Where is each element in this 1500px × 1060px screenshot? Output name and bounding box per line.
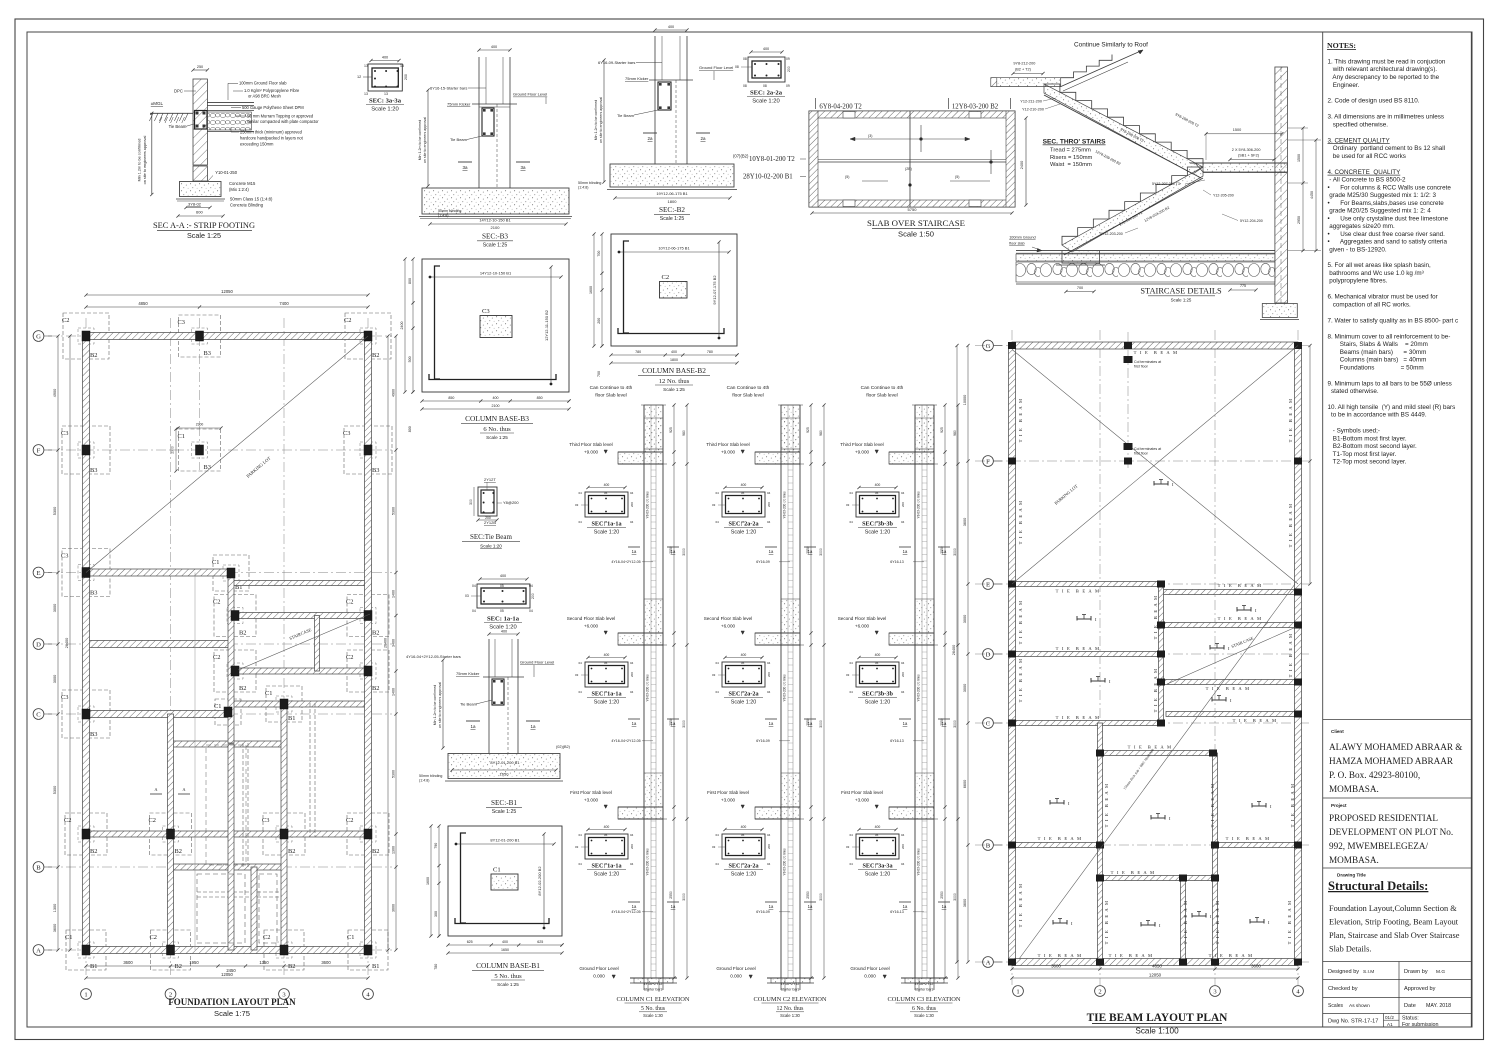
svg-text:T I E B E A M: T I E B E A M xyxy=(1056,646,1101,651)
svg-text:B2: B2 xyxy=(372,352,379,359)
svg-text:B2: B2 xyxy=(239,630,246,637)
svg-text:Plan, Staircase and Slab Over: Plan, Staircase and Slab Over Staircase xyxy=(1329,931,1460,940)
svg-text:C2: C2 xyxy=(346,817,353,824)
svg-text:03: 03 xyxy=(575,845,579,849)
svg-text:Col terminates at: Col terminates at xyxy=(1134,360,1161,364)
svg-text:2300: 2300 xyxy=(196,423,204,427)
svg-text:100mm Ground Floor slab: 100mm Ground Floor slab xyxy=(239,81,287,86)
svg-text:400: 400 xyxy=(671,350,677,354)
svg-text:3000: 3000 xyxy=(819,548,823,556)
svg-text:T I E B E A M: T I E B E A M xyxy=(1233,718,1278,723)
svg-text:Ground Floor Level: Ground Floor Level xyxy=(513,92,547,97)
svg-text:Y8@200: Y8@200 xyxy=(503,500,519,505)
svg-text:5Y12-207-200 T3: 5Y12-207-200 T3 xyxy=(1152,182,1180,186)
tie beam plan grid bubbles xyxy=(983,340,994,351)
svg-text:04: 04 xyxy=(630,833,634,837)
svg-text:(5): (5) xyxy=(955,175,959,179)
svg-text:04: 04 xyxy=(767,661,771,665)
svg-text:Scale 1:20: Scale 1:20 xyxy=(865,700,890,706)
svg-text:04: 04 xyxy=(630,690,634,694)
svg-text:Can Continue to 4th: Can Continue to 4th xyxy=(590,385,633,391)
svg-text:Scale 1:20: Scale 1:20 xyxy=(865,872,890,878)
svg-text:B2: B2 xyxy=(175,963,182,970)
svg-text:Y8-03-200 c/c links: Y8-03-200 c/c links xyxy=(917,848,921,876)
svg-text:Tread = 275mm: Tread = 275mm xyxy=(1050,148,1091,154)
svg-text:SEC: 3b-3b: SEC: 3b-3b xyxy=(862,691,893,698)
svg-text:Ground Floor Level: Ground Floor Level xyxy=(520,660,554,665)
svg-text:C2: C2 xyxy=(150,934,157,941)
svg-text:0.000: 0.000 xyxy=(864,974,876,979)
svg-text:03: 03 xyxy=(575,503,579,507)
svg-text:3000: 3000 xyxy=(53,675,57,683)
svg-text:polypropylene fibres.: polypropylene fibres. xyxy=(1328,278,1388,285)
svg-text:05: 05 xyxy=(604,491,608,495)
svg-text:400: 400 xyxy=(493,396,499,400)
svg-text:(1:4:8): (1:4:8) xyxy=(438,214,448,218)
lower stair flight xyxy=(1062,167,1203,245)
svg-text:Min 1.2m to be confirmed: Min 1.2m to be confirmed xyxy=(433,685,437,726)
svg-text:04: 04 xyxy=(901,520,905,524)
SEC Tie Beam section xyxy=(462,477,520,549)
svg-text:04: 04 xyxy=(579,661,583,665)
svg-text:exceeding 150mm: exceeding 150mm xyxy=(240,142,274,147)
svg-text:08: 08 xyxy=(743,84,747,88)
svg-text:Y12-211-200: Y12-211-200 xyxy=(1020,100,1042,104)
svg-text:P. O. Box. 42923-80100,: P. O. Box. 42923-80100, xyxy=(1329,770,1420,780)
svg-text:200: 200 xyxy=(767,844,771,849)
svg-text:10Y8-01-200 T2: 10Y8-01-200 T2 xyxy=(749,156,795,163)
svg-text:T I E B E A M: T I E B E A M xyxy=(1038,953,1083,958)
svg-text:4Y16+2Y12: 4Y16+2Y12 xyxy=(915,982,934,986)
svg-text:03: 03 xyxy=(846,503,850,507)
svg-text:Structural Details:: Structural Details: xyxy=(1328,879,1428,893)
svg-text:Scale 1:20: Scale 1:20 xyxy=(371,107,398,113)
svg-text:compaction of all RC works.: compaction of all RC works. xyxy=(1328,301,1412,308)
svg-text:Scale 1:25: Scale 1:25 xyxy=(187,231,221,240)
svg-text:250mm thick (minimum) approved: 250mm thick (minimum) approved xyxy=(240,130,303,135)
svg-text:Scale 1:100: Scale 1:100 xyxy=(1135,1027,1179,1036)
svg-text:04: 04 xyxy=(850,833,854,837)
svg-text:400: 400 xyxy=(668,25,674,29)
svg-text:925: 925 xyxy=(669,427,673,433)
svg-text:Scale 1:25: Scale 1:25 xyxy=(1171,298,1192,303)
svg-text:Second Floor Slab level: Second Floor Slab level xyxy=(704,616,753,621)
svg-text:4Y16+2Y12: 4Y16+2Y12 xyxy=(644,982,663,986)
svg-text:05: 05 xyxy=(741,661,745,665)
svg-text:4Y16-04+2Y12-05-Starter bars: 4Y16-04+2Y12-05-Starter bars xyxy=(406,654,461,659)
SEC-B2 footing section xyxy=(578,25,737,222)
tie beam plan perimeter walls xyxy=(1009,342,1302,966)
svg-text:3000: 3000 xyxy=(682,720,686,728)
svg-text:As shown: As shown xyxy=(1349,1003,1370,1009)
svg-text:26400: 26400 xyxy=(384,638,388,648)
svg-text:stated otherwise.: stated otherwise. xyxy=(1328,388,1379,395)
svg-text:Scale 1:25: Scale 1:25 xyxy=(660,216,685,222)
svg-text:7400: 7400 xyxy=(279,301,289,306)
svg-text:T I E B E A M: T I E B E A M xyxy=(1287,900,1292,945)
svg-text:780: 780 xyxy=(434,964,438,970)
section box SEC: 3b-3b xyxy=(846,483,905,536)
svg-text:(1:4:8): (1:4:8) xyxy=(578,186,588,190)
svg-text:E: E xyxy=(36,570,40,577)
svg-text:1300: 1300 xyxy=(392,846,396,854)
SEC-B3 footing section xyxy=(418,45,572,249)
svg-text:10Y12-06-175 B1: 10Y12-06-175 B1 xyxy=(658,246,690,251)
svg-text:Min 1.2m to be confirmed: Min 1.2m to be confirmed xyxy=(138,139,142,182)
svg-text:STAIRCASE DETAILS: STAIRCASE DETAILS xyxy=(1140,287,1222,296)
svg-text:COLUMN C2 ELEVATION: COLUMN C2 ELEVATION xyxy=(753,996,826,1003)
svg-text:200: 200 xyxy=(901,502,905,507)
svg-text:300: 300 xyxy=(469,499,473,505)
svg-text:3600: 3600 xyxy=(963,518,967,526)
svg-text:A: A xyxy=(36,947,41,954)
svg-text:B1: B1 xyxy=(288,715,295,722)
svg-text:2. Code of design used BS 8110: 2. Code of design used BS 8110. xyxy=(1328,98,1420,105)
svg-text:10000: 10000 xyxy=(963,395,967,406)
svg-text:Dwg No. STR-17-17: Dwg No. STR-17-17 xyxy=(1328,1019,1378,1025)
svg-text:Date: Date xyxy=(1404,1003,1416,1009)
svg-text:B2: B2 xyxy=(288,848,295,855)
svg-text:Y10-01-250: Y10-01-250 xyxy=(215,170,238,175)
svg-text:SEC. THRO' STAIRS: SEC. THRO' STAIRS xyxy=(1043,139,1107,146)
svg-text:1300: 1300 xyxy=(53,904,57,912)
svg-text:4. CONCRETE QUALITY: 4. CONCRETE QUALITY xyxy=(1328,169,1402,176)
svg-text:Columns (main bars) = 40mm: Columns (main bars) = 40mm xyxy=(1328,357,1427,364)
svg-text:C2: C2 xyxy=(346,654,353,661)
svg-text:on site to engineers approval: on site to engineers approval xyxy=(599,97,603,143)
upper stair flight xyxy=(1044,84,1203,167)
svg-text:COLUMN C1 ELEVATION: COLUMN C1 ELEVATION xyxy=(616,996,689,1003)
svg-text:3000: 3000 xyxy=(682,893,686,901)
svg-text:04: 04 xyxy=(579,491,583,495)
svg-text:Scale 1:25: Scale 1:25 xyxy=(497,982,519,987)
svg-text:SEC: 1a-1a: SEC: 1a-1a xyxy=(591,863,621,870)
svg-text:04: 04 xyxy=(767,833,771,837)
svg-text:Scale 1:30: Scale 1:30 xyxy=(914,1013,934,1018)
svg-text:TIE BEAM LAYOUT PLAN: TIE BEAM LAYOUT PLAN xyxy=(1087,1012,1229,1024)
svg-text:1a: 1a xyxy=(942,721,947,726)
svg-text:B3: B3 xyxy=(204,464,211,471)
svg-text:Concrete Blinding: Concrete Blinding xyxy=(230,203,264,208)
svg-text:SEC: 1a-1a: SEC: 1a-1a xyxy=(591,691,621,698)
svg-text:3600: 3600 xyxy=(53,924,57,932)
svg-text:3a: 3a xyxy=(520,165,526,170)
svg-text:04: 04 xyxy=(529,584,533,588)
stair room dashed outlines xyxy=(197,874,245,943)
svg-text:850: 850 xyxy=(537,396,543,400)
svg-text:1a: 1a xyxy=(470,724,476,729)
svg-text:Third Floor Slab level: Third Floor Slab level xyxy=(840,442,883,447)
svg-text:Y8-03-200 c/c links: Y8-03-200 c/c links xyxy=(646,674,650,702)
svg-text:400: 400 xyxy=(501,630,507,634)
svg-text:13: 13 xyxy=(384,92,388,96)
svg-text:300: 300 xyxy=(434,911,438,917)
svg-text:T I E B E A M: T I E B E A M xyxy=(1153,668,1158,713)
svg-text:50 mm Murram Topping or approv: 50 mm Murram Topping or approved xyxy=(247,113,314,118)
notes panel xyxy=(1323,32,1472,1027)
svg-text:Y12-210-200: Y12-210-200 xyxy=(1022,108,1044,112)
svg-text:T I E B E A M: T I E B E A M xyxy=(1104,900,1109,945)
svg-text:MOMBASA.: MOMBASA. xyxy=(1329,784,1379,794)
SEC-B1 footing section xyxy=(406,630,571,816)
svg-text:Elevation, Strip Footing, Beam: Elevation, Strip Footing, Beam Layout xyxy=(1329,918,1459,927)
svg-text:09: 09 xyxy=(786,57,790,61)
svg-text:2a: 2a xyxy=(647,136,653,141)
svg-text:04: 04 xyxy=(716,833,720,837)
svg-text:B2: B2 xyxy=(90,352,97,359)
svg-text:Tie Beam: Tie Beam xyxy=(460,702,478,707)
svg-text:04: 04 xyxy=(767,690,771,694)
foundation plan dimensions xyxy=(53,289,398,980)
svg-text:200: 200 xyxy=(630,844,634,849)
svg-text:10. All high tensile (Y) and: 10. All high tensile (Y) and mild steel … xyxy=(1328,404,1456,411)
svg-text:S.I.M: S.I.M xyxy=(1363,969,1374,975)
svg-text:with relevant architectural dr: with relevant architectural drawing(s). xyxy=(1328,66,1438,73)
svg-text:19Y12-06-175 B1: 19Y12-06-175 B1 xyxy=(656,191,688,196)
staircase diagonal xyxy=(238,614,370,670)
svg-text:26400: 26400 xyxy=(952,645,956,656)
svg-text:C1: C1 xyxy=(347,934,354,941)
svg-text:on site to engineers approval: on site to engineers approval xyxy=(438,682,442,728)
svg-text:MOMBASA.: MOMBASA. xyxy=(1329,855,1379,865)
svg-text:Beams (main bars) = 30mm: Beams (main bars) = 30mm xyxy=(1328,349,1427,356)
svg-text:1a: 1a xyxy=(942,549,947,554)
svg-text:1600: 1600 xyxy=(589,286,593,294)
svg-text:04: 04 xyxy=(767,491,771,495)
svg-text:200: 200 xyxy=(767,502,771,507)
svg-text:6Y16-09: 6Y16-09 xyxy=(756,560,770,564)
svg-text:6Y16-09: 6Y16-09 xyxy=(756,910,770,914)
svg-text:Starter bars: Starter bars xyxy=(915,988,934,992)
svg-text:1: 1 xyxy=(84,991,87,998)
svg-text:+6.000: +6.000 xyxy=(855,624,870,629)
svg-text:04: 04 xyxy=(716,520,720,524)
svg-text:200: 200 xyxy=(787,66,791,72)
section box SEC: 1a-1a xyxy=(575,653,634,706)
svg-text:C1: C1 xyxy=(265,690,272,697)
svg-text:1a: 1a xyxy=(769,904,774,909)
svg-text:04: 04 xyxy=(716,661,720,665)
svg-text:C3: C3 xyxy=(61,553,68,560)
svg-text:04: 04 xyxy=(579,862,583,866)
svg-text:B1: B1 xyxy=(372,963,379,970)
svg-text:400: 400 xyxy=(604,483,610,487)
svg-text:floor Slab level: floor Slab level xyxy=(866,393,897,399)
svg-text:T I E B E A M: T I E B E A M xyxy=(1018,500,1023,545)
svg-text:MAY. 2018: MAY. 2018 xyxy=(1426,1003,1451,1009)
svg-text:03: 03 xyxy=(712,503,716,507)
svg-text:T I E B E A M: T I E B E A M xyxy=(1134,350,1179,355)
svg-text:C1: C1 xyxy=(65,934,72,941)
svg-text:6Y16-13: 6Y16-13 xyxy=(890,560,904,564)
svg-text:T I E B E A M: T I E B E A M xyxy=(1153,595,1158,640)
svg-text:7. Water to satisfy quality as: 7. Water to satisfy quality as in BS 850… xyxy=(1328,317,1459,324)
svg-text:C: C xyxy=(36,711,41,718)
svg-text:9Y12-07-175 B2: 9Y12-07-175 B2 xyxy=(712,275,717,305)
svg-text:04: 04 xyxy=(716,491,720,495)
svg-text:SLAB OVER STAIRCASE: SLAB OVER STAIRCASE xyxy=(867,218,965,228)
svg-text:T I E B E A M: T I E B E A M xyxy=(1056,589,1101,594)
svg-text:similar compacted with plate c: similar compacted with plate compactor xyxy=(247,119,319,124)
svg-text:T I E B E A M: T I E B E A M xyxy=(1209,953,1254,958)
svg-text:C2: C2 xyxy=(263,934,270,941)
svg-text:5300: 5300 xyxy=(392,770,396,778)
svg-text:A1: A1 xyxy=(1387,1022,1393,1027)
svg-text:625: 625 xyxy=(467,940,473,944)
svg-text:(B2 + T2): (B2 + T2) xyxy=(1015,68,1032,72)
svg-text:200: 200 xyxy=(901,672,905,677)
svg-text:13: 13 xyxy=(400,64,404,68)
svg-text:04: 04 xyxy=(472,584,476,588)
svg-text:Ground Floor Level: Ground Floor Level xyxy=(850,966,889,971)
svg-text:First Floor Slab level: First Floor Slab level xyxy=(841,790,883,795)
svg-text:980: 980 xyxy=(819,430,823,436)
svg-text:12050: 12050 xyxy=(1149,973,1162,978)
svg-text:• For columns & RCC Walls: • For columns & RCC Walls use concrete xyxy=(1328,184,1452,191)
svg-text:50mm Class 15 (1:4:8): 50mm Class 15 (1:4:8) xyxy=(230,197,273,202)
svg-text:5300: 5300 xyxy=(53,507,57,515)
svg-text:SEC:-B3: SEC:-B3 xyxy=(482,233,508,241)
svg-text:3600: 3600 xyxy=(1251,964,1261,969)
title block xyxy=(1323,719,1472,1028)
svg-text:850: 850 xyxy=(448,396,454,400)
svg-text:SEC: 1a-1a: SEC: 1a-1a xyxy=(591,521,621,528)
svg-text:775: 775 xyxy=(1240,284,1246,288)
svg-text:+6.000: +6.000 xyxy=(584,624,599,629)
svg-text:SEC:-B1: SEC:-B1 xyxy=(491,799,517,807)
svg-text:03: 03 xyxy=(712,673,716,677)
svg-text:- Symbols used;-: - Symbols used;- xyxy=(1328,428,1381,435)
svg-text:C3: C3 xyxy=(178,319,185,326)
svg-text:2100: 2100 xyxy=(491,225,501,230)
svg-text:Scale 1:75: Scale 1:75 xyxy=(214,1009,250,1018)
svg-text:T I E B E A M: T I E B E A M xyxy=(1218,616,1263,621)
svg-text:1500: 1500 xyxy=(1233,128,1241,132)
svg-text:8. Minimum cover to all reinfo: 8. Minimum cover to all reinforcement to… xyxy=(1328,333,1451,340)
svg-text:03: 03 xyxy=(465,594,469,598)
svg-text:05: 05 xyxy=(875,491,879,495)
svg-text:grade M20/25 Suggested mix 1:: grade M20/25 Suggested mix 1: 2: 4 xyxy=(1328,208,1432,215)
svg-text:(1:4:8): (1:4:8) xyxy=(419,779,429,783)
svg-text:2550: 2550 xyxy=(669,891,673,899)
svg-text:Scale 1:20: Scale 1:20 xyxy=(594,530,619,536)
svg-text:to be in accordance with BS 44: to be in accordance with BS 4449. xyxy=(1328,412,1427,419)
svg-text:First Floor Slab level: First Floor Slab level xyxy=(570,790,612,795)
svg-text:1500: 1500 xyxy=(1297,154,1301,162)
svg-text:2 X 5Y8-306-200: 2 X 5Y8-306-200 xyxy=(1232,148,1261,152)
svg-text:D: D xyxy=(986,651,991,658)
svg-text:04: 04 xyxy=(579,690,583,694)
svg-text:9. Minimum laps to all bars to: 9. Minimum laps to all bars to be 55Ø un… xyxy=(1328,380,1452,387)
svg-text:First Floor Slab level: First Floor Slab level xyxy=(707,790,749,795)
svg-text:1400: 1400 xyxy=(392,590,396,598)
section A-A cut tags xyxy=(150,793,162,795)
svg-text:Any descrepancy to be reported: Any descrepancy to be reported to the xyxy=(1328,74,1440,81)
svg-text:• Aggregates and sand to: • Aggregates and sand to satisfy criteri… xyxy=(1328,239,1448,246)
slab over staircase plan xyxy=(809,98,1028,239)
svg-text:T2-Top most second layer.: T2-Top most second layer. xyxy=(1328,459,1407,466)
svg-text:04: 04 xyxy=(716,862,720,866)
svg-text:400: 400 xyxy=(502,940,508,944)
svg-text:2Y12B: 2Y12B xyxy=(484,520,496,525)
svg-text:200: 200 xyxy=(901,844,905,849)
svg-text:12 No. thus: 12 No. thus xyxy=(659,378,690,385)
svg-text:780: 780 xyxy=(707,350,713,354)
svg-text:1600: 1600 xyxy=(426,877,430,885)
svg-text:aggregates size20 mm.: aggregates size20 mm. xyxy=(1328,223,1395,230)
svg-text:DEVELOPMENT ON PLOT No.: DEVELOPMENT ON PLOT No. xyxy=(1329,827,1453,837)
svg-text:Continue Similarly to Roof: Continue Similarly to Roof xyxy=(1074,42,1148,49)
svg-text:• Use clear dust free coa: • Use clear dust free coarse river sand. xyxy=(1328,231,1446,238)
svg-text:2400: 2400 xyxy=(400,322,404,330)
svg-text:B2-Bottom most second layer.: B2-Bottom most second layer. xyxy=(1328,443,1417,450)
svg-text:03: 03 xyxy=(575,673,579,677)
svg-text:T I E B E A M: T I E B E A M xyxy=(1018,883,1023,928)
svg-text:T I E B E A M: T I E B E A M xyxy=(1206,686,1251,691)
svg-text:13: 13 xyxy=(364,64,368,68)
svg-text:given - to BS-12920.: given - to BS-12920. xyxy=(1328,246,1387,253)
svg-text:08: 08 xyxy=(743,57,747,61)
svg-text:5. For all wet areas like spla: 5. For all wet areas like splash basin, xyxy=(1328,262,1431,269)
tie beam internal beams xyxy=(1012,582,1161,587)
svg-text:700: 700 xyxy=(1077,286,1083,290)
svg-text:50mm blinding: 50mm blinding xyxy=(419,774,442,778)
svg-text:3600: 3600 xyxy=(1051,964,1061,969)
svg-text:3000: 3000 xyxy=(682,548,686,556)
svg-text:T I E B E A M: T I E B E A M xyxy=(1018,600,1023,645)
svg-text:Third Floor Slab level: Third Floor Slab level xyxy=(569,442,612,447)
svg-text:200: 200 xyxy=(597,318,601,324)
svg-text:2400: 2400 xyxy=(1020,161,1024,169)
svg-text:5Y12-203-200: 5Y12-203-200 xyxy=(1100,232,1123,236)
svg-text:2550: 2550 xyxy=(806,891,810,899)
svg-text:4Y16-04+2Y12-05: 4Y16-04+2Y12-05 xyxy=(611,560,640,564)
section box SEC: 2a-2a xyxy=(712,825,771,878)
svg-text:Y8-03-200 c/c links: Y8-03-200 c/c links xyxy=(783,848,787,876)
svg-text:F: F xyxy=(37,447,41,454)
svg-text:T I E B E A M: T I E B E A M xyxy=(1288,633,1293,678)
svg-text:04: 04 xyxy=(901,491,905,495)
svg-text:3000: 3000 xyxy=(953,893,957,901)
svg-text:05: 05 xyxy=(875,833,879,837)
svg-text:(3): (3) xyxy=(868,134,872,138)
svg-text:6Y16-09: 6Y16-09 xyxy=(756,739,770,743)
svg-text:800: 800 xyxy=(408,278,412,284)
svg-text:Checked by: Checked by xyxy=(1328,986,1358,992)
svg-text:C2: C2 xyxy=(62,317,69,324)
svg-text:first floor: first floor xyxy=(1134,452,1149,456)
svg-text:13: 13 xyxy=(364,92,368,96)
svg-text:1a: 1a xyxy=(903,904,908,909)
F row footing 2300 dims xyxy=(178,427,221,429)
svg-text:Scale 1:25: Scale 1:25 xyxy=(492,809,517,815)
svg-text:B2: B2 xyxy=(372,630,379,637)
svg-text:75mm Kicker: 75mm Kicker xyxy=(456,671,480,676)
svg-text:04: 04 xyxy=(850,661,854,665)
svg-text:1a: 1a xyxy=(808,904,813,909)
svg-text:1a: 1a xyxy=(671,549,676,554)
svg-text:ALAWY MOHAMED ABRAAR &: ALAWY MOHAMED ABRAAR & xyxy=(1329,742,1462,752)
SEC 1a-1a section standalone xyxy=(465,574,535,631)
svg-text:6Y16-13: 6Y16-13 xyxy=(890,739,904,743)
svg-text:on site to engineers approval: on site to engineers approval xyxy=(143,135,147,184)
svg-text:28Y10-02-200 B1: 28Y10-02-200 B1 xyxy=(743,174,793,181)
svg-text:400: 400 xyxy=(491,45,497,49)
svg-text:be used for all RCC works: be used for all RCC works xyxy=(1328,153,1406,160)
svg-text:Status:: Status: xyxy=(1402,1016,1419,1022)
column elevation COLUMN C2 ELEVATION xyxy=(704,385,827,1018)
svg-text:Tie Beam: Tie Beam xyxy=(450,137,468,142)
